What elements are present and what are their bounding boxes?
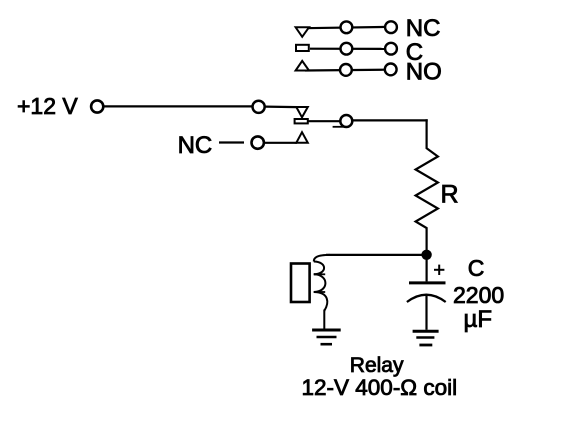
svg-text:C: C (468, 255, 485, 281)
svg-text:Relay: Relay (350, 354, 404, 377)
svg-text:µF: µF (464, 306, 493, 333)
svg-text:+12 V: +12 V (17, 93, 78, 119)
svg-text:R: R (441, 180, 459, 208)
svg-text:12-V 400-Ω coil: 12-V 400-Ω coil (302, 375, 458, 400)
svg-text:2200: 2200 (453, 282, 504, 308)
svg-text:NO: NO (406, 59, 442, 86)
svg-text:NC: NC (178, 132, 213, 159)
